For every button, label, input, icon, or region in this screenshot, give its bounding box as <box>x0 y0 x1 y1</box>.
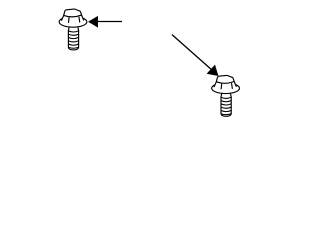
arrow 2 head <box>207 65 219 76</box>
arrow 1 head <box>88 16 98 28</box>
arrow 2 leader line <box>172 35 212 70</box>
bolt 1 (upper left) <box>59 9 87 50</box>
arrow 1 leader line <box>97 21 122 23</box>
bolt 2 (lower right) <box>212 75 240 116</box>
